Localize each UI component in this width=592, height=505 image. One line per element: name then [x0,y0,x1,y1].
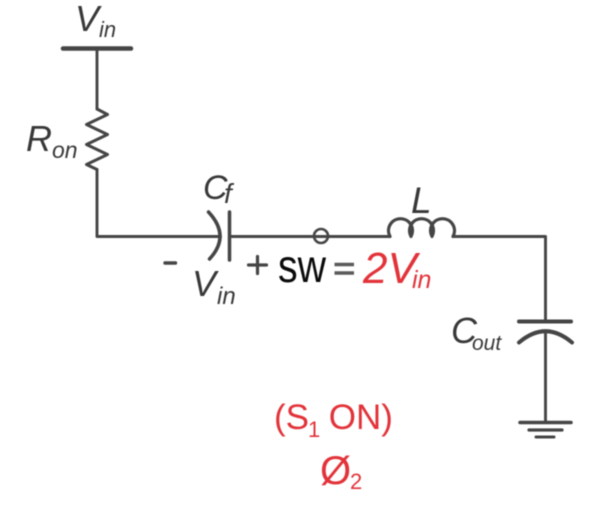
svg-text:R: R [26,118,52,159]
svg-text:in: in [217,283,236,310]
svg-text:2: 2 [350,469,362,494]
svg-text:ON): ON) [319,398,393,437]
svg-text:f: f [224,178,235,209]
svg-text:in: in [99,17,116,42]
svg-text:out: out [472,332,502,355]
svg-text:V: V [192,263,219,304]
svg-text:Ø: Ø [320,449,351,493]
svg-text:(S: (S [274,398,309,437]
svg-text:sw: sw [278,240,327,292]
svg-text:V: V [75,0,102,39]
svg-text:L: L [411,180,432,221]
svg-text:on: on [52,137,78,163]
svg-text:in: in [412,266,431,294]
